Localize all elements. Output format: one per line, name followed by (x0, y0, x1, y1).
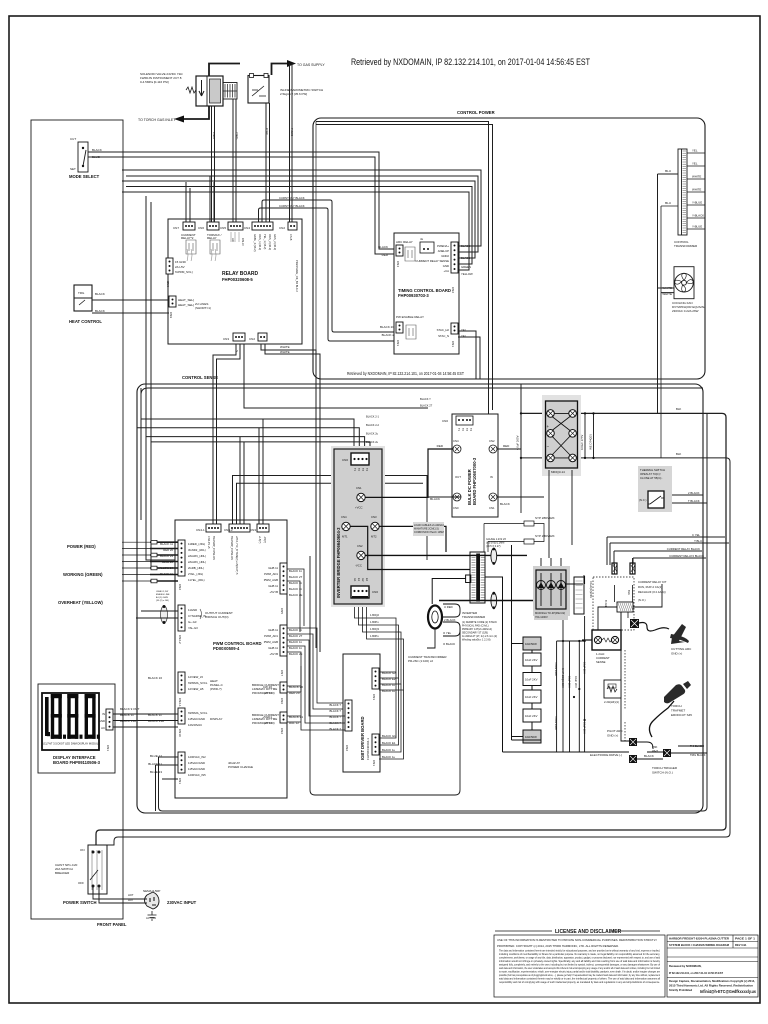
svg-text:CN-D: CN-D (241, 238, 245, 246)
svg-text:BOARD FHP09110506-3: BOARD FHP09110506-3 (53, 760, 101, 765)
svg-text:(PWD-?): (PWD-?) (210, 687, 222, 691)
svg-text:1.8DQ3: 1.8DQ3 (370, 627, 379, 631)
svg-text:CN3: CN3 (372, 694, 376, 700)
svg-text:TRANSFORMER: TRANSFORMER (462, 615, 486, 619)
svg-text:GND (+): GND (+) (671, 652, 682, 656)
svg-text:CN2: CN2 (489, 439, 495, 443)
svg-text:O YEL: O YEL (443, 631, 452, 635)
svg-text:CN0: CN0 (442, 419, 448, 423)
svg-text:YAL-G3: YAL-G3 (188, 626, 198, 630)
svg-text:T BLACK: T BLACK (688, 499, 700, 503)
svg-text:FHP00930703-3: FHP00930703-3 (398, 293, 429, 298)
svg-text:CURRENT RELAY SENSE: CURRENT RELAY SENSE (415, 259, 449, 263)
svg-text:FHP00320608-5: FHP00320608-5 (222, 277, 253, 282)
svg-text:RED 20: RED 20 (163, 548, 173, 552)
svg-text:O BLACK: O BLACK (443, 642, 455, 646)
svg-text:CN1: CN1 (106, 745, 110, 751)
svg-text:possible (but has prerequisite: possible (but has prerequisites as of pl… (499, 973, 660, 977)
svg-text:Winding ratio(No: 1 2.3 8): Winding ratio(No: 1 2.3 8) (462, 639, 491, 642)
svg-text:10uF 2KV: 10uF 2KV (525, 678, 538, 682)
svg-text:4.0Ω3 E0W: 4.0Ω3 E0W (554, 662, 558, 676)
svg-text:230VAC INPUT: 230VAC INPUT (167, 900, 197, 905)
svg-text:TRIG BLACK: TRIG BLACK (690, 753, 706, 757)
svg-text:ON: ON (80, 848, 85, 852)
svg-text:(35 (2) x GB): (35 (2) x GB) (156, 600, 169, 602)
svg-text:SWITCH (N.O.): SWITCH (N.O.) (652, 771, 673, 775)
svg-text:11YEL_(JDL): 11YEL_(JDL) (188, 578, 205, 582)
svg-text:1.8DQ2: 1.8DQ2 (370, 613, 379, 617)
svg-text:WHITE: WHITE (280, 350, 290, 354)
svg-text:2.5kg/cm² [35.6 PSI]: 2.5kg/cm² [35.6 PSI] (280, 92, 307, 96)
svg-text:OUT: OUT (455, 475, 461, 479)
svg-text:BLACK: BLACK (430, 497, 440, 501)
svg-text:BLACK 11: BLACK 11 (120, 713, 134, 717)
svg-text:MT2: MT2 (371, 535, 377, 539)
svg-text:Infini4@h-ETC@Gedfkxxxxly.us: Infini4@h-ETC@Gedfkxxxxly.us (700, 989, 757, 994)
svg-text:TRAFMET: TRAFMET (671, 709, 685, 713)
svg-text:%PRMA_SVCL: %PRMA_SVCL (188, 711, 208, 715)
svg-text:EMERG LINE: EMERG LINE (156, 594, 170, 596)
svg-text:BLU: BLU (665, 169, 671, 173)
svg-text:RUN, RUP-2 CA(1): RUN, RUP-2 CA(1) (638, 585, 662, 589)
svg-text:115VAC/GND: 115VAC/GND (188, 767, 205, 771)
svg-text:WHITE: WHITE (280, 345, 290, 349)
svg-text:CN9: CN9 (169, 312, 173, 318)
svg-text:MODE SELECT: MODE SELECT (69, 174, 100, 179)
svg-text:Retrieved by NXDOMAIN, IP 82.1: Retrieved by NXDOMAIN, IP 82.132.214.101… (351, 57, 590, 67)
svg-text:IN: IN (490, 475, 493, 479)
svg-text:Retrieved by NXDOMAIN, IP 82.1: Retrieved by NXDOMAIN, IP 82.132.214.101… (347, 371, 464, 376)
svg-text:TORCH TRIGGER: TORCH TRIGGER (652, 766, 678, 770)
svg-text:The data and information conta: The data and information contained herei… (499, 949, 660, 953)
svg-text:completeness, usefulness, or u: completeness, usefulness, or usage of an… (499, 956, 661, 960)
svg-text:12VIEW_H5: 12VIEW_H5 (188, 687, 204, 691)
svg-text:ARC RELAY: ARC RELAY (396, 240, 413, 244)
svg-text:Y-BLUE: Y-BLUE (692, 225, 702, 229)
svg-text:BLACK 2: BLACK 2 (382, 333, 395, 337)
svg-text:CN2: CN2 (178, 584, 182, 590)
svg-text:to repair, modification, exper: to repair, modification, experimentation… (499, 970, 660, 974)
svg-text:CN4-2: CN4-2 (224, 528, 233, 532)
svg-text:CN4-P1 +5: CN4-P1 +5 (207, 536, 210, 549)
svg-text:CN1: CN1 (356, 486, 362, 490)
svg-text:RELAY: RELAY (207, 236, 217, 240)
svg-text:2AGRN_(JDL): 2AGRN_(JDL) (188, 554, 206, 558)
svg-text:BLACK: BLACK (500, 502, 510, 506)
svg-text:2YEL_(JDL): 2YEL_(JDL) (188, 572, 203, 576)
svg-text:CYNARNE_IN: CYNARNE_IN (188, 614, 206, 618)
svg-text:BLACK 11: BLACK 11 (289, 646, 302, 650)
svg-text:responsibility and risk of com: responsibility and risk of complying wit… (499, 980, 660, 984)
svg-text:IN: IN (102, 712, 105, 716)
svg-text:10uF 2KV: 10uF 2KV (568, 676, 572, 688)
svg-text:FRONT PANEL: FRONT PANEL (97, 922, 127, 927)
svg-text:−: − (547, 444, 550, 449)
svg-text:PR-26C (1:100) x2: PR-26C (1:100) x2 (408, 659, 433, 663)
svg-text:GHB 11: GHB 11 (268, 628, 278, 632)
svg-text:IGBT DRIVER BOARD: IGBT DRIVER BOARD (360, 716, 365, 760)
svg-text:TRANMP_IN PW-ON: TRANMP_IN PW-ON (212, 536, 215, 560)
svg-text:2.2Ω(HF)(1): 2.2Ω(HF)(1) (604, 700, 619, 704)
svg-text:A1 (2) GWB: A1 (2) GWB (156, 596, 168, 599)
svg-text:PWENA+: PWENA+ (437, 244, 449, 248)
svg-text:CORROSION HeAC 105M: CORROSION HeAC 105M (414, 531, 444, 534)
svg-text:BLACK 11: BLACK 11 (160, 572, 173, 576)
svg-text:BLACK 20: BLACK 20 (380, 325, 394, 329)
svg-text:ANELUP: ANELUP (438, 249, 449, 253)
svg-text:TRG: TRG (78, 291, 85, 295)
svg-text:RED: RED (503, 444, 510, 448)
svg-text:12VIEW_L5: 12VIEW_L5 (188, 675, 203, 679)
svg-text:CN2-2: CN2-2 (178, 635, 182, 644)
svg-text:ELECTRODE DRIVE (-): ELECTRODE DRIVE (-) (590, 753, 622, 757)
svg-text:GRN_2 (36.2): GRN_2 (36.2) (273, 234, 277, 250)
svg-text:CONTROL POWER: CONTROL POWER (457, 110, 495, 115)
svg-text:BLACK: BLACK (95, 292, 105, 296)
svg-text:BLACK 11: BLACK 11 (289, 640, 302, 644)
svg-text:+L5(?): +L5(?) (258, 536, 261, 543)
svg-text:YEL: YEL (692, 162, 698, 166)
svg-text:CN8: CN8 (166, 281, 170, 287)
svg-text:CN2: CN2 (249, 337, 255, 341)
svg-text:1.8DPu: 1.8DPu (370, 634, 379, 638)
svg-text:BLACK: BLACK (378, 245, 388, 249)
svg-text:CN4: CN4 (341, 515, 347, 519)
svg-text:CN0: CN0 (372, 590, 378, 594)
svg-text:CN2: CN2 (279, 226, 285, 230)
svg-text:PROHIBITED. COPYRIGHT (c) 201: PROHIBITED. COPYRIGHT (c) 2014, 2015 THI… (497, 944, 619, 948)
svg-text:GWB3 2,2W: GWB3 2,2W (156, 591, 169, 593)
svg-text:CN5: CN5 (220, 226, 226, 230)
svg-text:YALLOW 24: YALLOW 24 (158, 566, 174, 570)
svg-text:PAGE 1 OF 1: PAGE 1 OF 1 (735, 937, 756, 941)
svg-text:PWM_AD1: PWM_AD1 (264, 572, 278, 576)
svg-text:TRANSFORMER: TRANSFORMER (674, 244, 698, 248)
svg-text:including conditions of mercha: including conditions of merchantability … (499, 952, 660, 956)
svg-text:10uF 2KV: 10uF 2KV (574, 676, 578, 688)
svg-text:B 2UE: B 2UE (604, 600, 608, 608)
svg-text:BLACK 11: BLACK 11 (148, 713, 162, 717)
svg-text:BLACK 2T: BLACK 2T (289, 575, 303, 579)
svg-text:Strictly Prohibited: Strictly Prohibited (669, 988, 693, 992)
svg-text:BLACK 1u: BLACK 1u (382, 748, 396, 752)
svg-text:Y-BLUE: Y-BLUE (692, 201, 702, 205)
svg-text:ERODCUT S45: ERODCUT S45 (671, 713, 692, 717)
svg-text:CN2: CN2 (357, 544, 363, 548)
svg-text:BLACK 7: BLACK 7 (329, 703, 341, 707)
svg-text:said data and information cont: said data and information contained ther… (499, 977, 660, 981)
svg-text:TO TORCH GAS INLET: TO TORCH GAS INLET (138, 118, 176, 122)
svg-text:+5V IB: +5V IB (270, 590, 279, 594)
svg-text:BLUE 13: BLUE 13 (150, 770, 162, 774)
svg-text:BLK: BLK (676, 407, 681, 411)
svg-text:BLGL 20: BLGL 20 (162, 560, 173, 564)
svg-text:Design Capture, Documentation,: Design Capture, Documentation, Modificat… (669, 979, 755, 983)
svg-text:CN3: CN3 (371, 515, 377, 519)
svg-text:YELLOW: YELLOW (461, 272, 473, 276)
svg-text:11GND: 11GND (188, 608, 197, 612)
svg-text:GRBL_4 (36.2): GRBL_4 (36.2) (253, 234, 257, 252)
svg-text:+5GD1: +5GD1 (262, 715, 272, 719)
svg-text:+VCC: +VCC (355, 506, 363, 510)
svg-text:(SHORT=1): (SHORT=1) (195, 306, 211, 310)
svg-text:11RED_(JDL): 11RED_(JDL) (188, 542, 205, 546)
svg-text:BLACK 7: BLACK 7 (329, 709, 341, 713)
svg-text:10Ω/50W: 10Ω/50W (525, 642, 537, 646)
svg-text:CN1: CN1 (489, 506, 495, 510)
svg-text:100uF 277V: 100uF 277V (580, 435, 584, 450)
svg-text:GW 02: GW 02 (263, 691, 273, 695)
svg-text:GHB 11: GHB 11 (268, 646, 278, 650)
svg-text:OFF: OFF (78, 881, 84, 885)
svg-text:PWM_AGB: PWM_AGB (264, 578, 278, 582)
svg-text:BOARD FHP10607000-3: BOARD FHP10607000-3 (472, 457, 477, 505)
svg-text:126/20VAC: 126/20VAC (188, 723, 202, 727)
svg-text:(N.C.): (N.C.) (639, 498, 647, 502)
svg-text:U RED: U RED (444, 605, 453, 609)
svg-text:SYP 28DV92K: SYP 28DV92K (535, 534, 555, 538)
svg-text:BLK: BLK (676, 452, 681, 456)
svg-text:70A 1200V: 70A 1200V (535, 615, 548, 619)
svg-text:MUR/3GA TO-3P(D92-02): MUR/3GA TO-3P(D92-02) (535, 611, 565, 615)
svg-text:CN6: CN6 (198, 226, 204, 230)
svg-text:CLOSE AT 55(C)↓: CLOSE AT 55(C)↓ (640, 476, 663, 480)
svg-text:MT1: MT1 (342, 535, 348, 539)
svg-text:INE D74Q01: INE D74Q01 (589, 434, 593, 450)
svg-text:POWER (RED): POWER (RED) (67, 544, 96, 549)
svg-text:SENSE: SENSE (596, 660, 606, 664)
svg-text:BLACK 11: BLACK 11 (289, 569, 302, 573)
svg-text:CN-B: CN-B (289, 234, 293, 241)
svg-text:CURRENT RELAY BLACK: CURRENT RELAY BLACK (667, 547, 700, 551)
svg-text:CN0: CN0 (453, 506, 459, 510)
svg-text:CN1: CN1 (451, 341, 455, 347)
svg-text:BLACK 2T: BLACK 2T (420, 404, 433, 408)
svg-text:RELAY*2: RELAY*2 (181, 236, 194, 240)
svg-text:BLACK: BLACK (644, 754, 654, 758)
svg-text:2AGRN_(JDL): 2AGRN_(JDL) (188, 560, 206, 564)
svg-text:BLACK 2E: BLACK 2E (289, 593, 303, 597)
svg-text:HEAT CONTROL: HEAT CONTROL (69, 319, 102, 324)
svg-text:BLACK: BLACK (92, 148, 102, 152)
svg-text:2A L5V: 2A L5V (175, 265, 185, 269)
svg-text:BLK: BLK (627, 590, 631, 595)
svg-text:HOT: HOT (128, 898, 134, 902)
svg-text:STAC_H2: STAC_H2 (437, 328, 450, 332)
svg-text:CN3: CN3 (223, 337, 229, 341)
svg-text:(10.5 X 0.27): (10.5 X 0.27) (486, 545, 501, 548)
svg-text:BLACK 11: BLACK 11 (148, 762, 162, 766)
svg-text:GHB 11: GHB 11 (268, 566, 278, 570)
svg-text:BLU: BLU (665, 201, 671, 205)
svg-text:BLACK 11: BLACK 11 (160, 542, 173, 546)
svg-text:WHITE: WHITE (692, 188, 701, 192)
svg-text:ORN_1 (36.2): ORN_1 (36.2) (258, 234, 262, 250)
svg-text:CN0: CN0 (342, 458, 348, 462)
svg-text:10uF 2KV: 10uF 2KV (525, 714, 538, 718)
svg-text:HEAT_SEL]: HEAT_SEL] (178, 303, 194, 307)
svg-text:2 BLACK: 2 BLACK (444, 618, 456, 622)
svg-text:15 GND: 15 GND (175, 260, 187, 264)
svg-text:BLACK 13B: BLACK 13B (148, 719, 164, 723)
svg-text:2GRB_(JDL): 2GRB_(JDL) (188, 566, 204, 570)
svg-text:HOT: HOT (128, 893, 134, 897)
svg-text:BLACK: BLACK (95, 309, 105, 313)
svg-text:CUT: CUT (70, 137, 76, 141)
svg-text:WHITE: WHITE (692, 175, 701, 179)
svg-text:POWER SWITCH: POWER SWITCH (63, 900, 97, 905)
svg-text:-C5(?): -C5(?) (263, 536, 266, 543)
svg-text:INVERTER BRIDGE FHP06640604-3: INVERTER BRIDGE FHP06640604-3 (336, 527, 341, 598)
svg-text:S.YP 2SQ3 Θ2K: S.YP 2SQ3 Θ2K (561, 668, 565, 688)
svg-text:PD00X0509-4: PD00X0509-4 (213, 646, 240, 651)
svg-text:CUTTING ARC: CUTTING ARC (671, 647, 692, 651)
svg-text:ORN_2 (36.2): ORN_2 (36.2) (268, 234, 272, 250)
svg-text:4.0Ω3 E0W: 4.0Ω3 E0W (554, 716, 558, 730)
svg-text:POWER CHANGE: POWER CHANGE (228, 765, 253, 769)
svg-text:CN3: CN3 (250, 528, 256, 532)
svg-text:WIDSCH OUT(D): WIDSCH OUT(D) (205, 615, 229, 619)
svg-text:2015 Third Harmonic Ltd. All: 2015 Third Harmonic Ltd. All Rights Rese… (669, 984, 753, 988)
svg-text:BLACK 1u: BLACK 1u (382, 755, 396, 759)
svg-text:GND: GND (443, 264, 449, 268)
svg-text:USE OF THIS INFORMATION IS RES: USE OF THIS INFORMATION IS RESTRICTED TO… (497, 938, 657, 942)
svg-text:BLACK 2u: BLACK 2u (366, 432, 379, 436)
svg-text:10uF 2KV: 10uF 2KV (583, 722, 587, 734)
svg-text:SYSTEM BLOCK / CHASSIS WIRING: SYSTEM BLOCK / CHASSIS WIRING DIAGRAM (669, 943, 730, 947)
svg-text:1200VAC_IN5: 1200VAC_IN5 (188, 773, 206, 777)
svg-text:CURRENT RELAY KIT: CURRENT RELAY KIT (638, 580, 667, 584)
svg-text:BLACK 2-2: BLACK 2-2 (366, 423, 380, 427)
svg-text:PRESSURE_OK_B2 BLK 2: PRESSURE_OK_B2 BLK 2 (295, 260, 299, 292)
svg-text:assigned fully, completely, an: assigned fully, completely, and entirely… (499, 963, 660, 967)
svg-text:IP 82.132.214.101, on 2017-01-: IP 82.132.214.101, on 2017-01-04 14:56:4… (669, 971, 723, 975)
svg-text:4x: 4x (420, 237, 424, 241)
svg-text:CN7: CN7 (280, 670, 284, 676)
svg-text:BLACK 2E: BLACK 2E (289, 652, 303, 656)
svg-text:GND: GND (99, 719, 105, 723)
svg-text:PWM_AD1: PWM_AD1 (264, 634, 278, 638)
svg-text:BLUE 12: BLUE 12 (150, 754, 162, 758)
svg-text:WORKING (GREEN): WORKING (GREEN) (63, 572, 103, 577)
svg-text:T BLU: T BLU (694, 539, 702, 543)
svg-text:MIDQ3-14: MIDQ3-14 (551, 470, 565, 474)
svg-text:RED: RED (437, 444, 444, 448)
svg-text:BLACK 13A: BLACK 13A (120, 719, 136, 723)
svg-text:10uF 2KV: 10uF 2KV (583, 662, 587, 674)
svg-text:CN10: CN10 (178, 729, 182, 737)
svg-text:PNK: PNK (652, 745, 658, 749)
svg-text:WHT: WHT (652, 749, 658, 753)
svg-text:10uF 2KV: 10uF 2KV (525, 695, 538, 699)
svg-text:0-4.5MPa [0-116 PSI]: 0-4.5MPa [0-116 PSI] (140, 80, 169, 84)
svg-text:BLACK 2-1: BLACK 2-1 (366, 415, 380, 419)
svg-text:BLACK E1: BLACK E1 (382, 741, 396, 745)
svg-text:BLACK 24: BLACK 24 (160, 554, 174, 558)
svg-text:GND2: GND2 (441, 254, 449, 258)
svg-text:CN1: CN1 (372, 760, 376, 766)
svg-text:%PRM_SVL]: %PRM_SVL] (175, 270, 193, 274)
svg-text:FHP06640604-1: FHP06640604-1 (366, 738, 370, 760)
svg-text:SET: SET (70, 167, 76, 171)
svg-text:3GND2_(JDL): 3GND2_(JDL) (188, 548, 206, 552)
svg-text:PW ENABLE RELAY: PW ENABLE RELAY (396, 315, 424, 319)
svg-text:115VAC/GND: 115VAC/GND (188, 761, 205, 765)
svg-text:10uF 2KV: 10uF 2KV (525, 658, 538, 662)
svg-text:STAC_N: STAC_N (438, 334, 449, 338)
svg-text:CN2: CN2 (345, 745, 349, 751)
svg-text:THI BLACK: THI BLACK (690, 744, 704, 748)
svg-text:CN2-1: CN2-1 (178, 698, 182, 707)
svg-text:GHB 11: GHB 11 (268, 584, 278, 588)
svg-text:CW 26: CW 26 (263, 685, 273, 689)
svg-text:HARBOR FREIGHT 62204 PLASMA CU: HARBOR FREIGHT 62204 PLASMA CUTTER (669, 937, 729, 941)
svg-text:BLACK 9 OUT: BLACK 9 OUT (120, 707, 140, 711)
svg-text:(N.O.): (N.O.) (638, 598, 646, 602)
svg-text:10Ω/50W: 10Ω/50W (525, 735, 537, 739)
svg-text:GND (+): GND (+) (607, 734, 618, 738)
svg-text:PWM_AGB: PWM_AGB (264, 640, 278, 644)
svg-text:0.1uF(X2)/2KV: 0.1uF(X2)/2KV (589, 581, 593, 598)
svg-text:CN7: CN7 (173, 226, 179, 230)
svg-text:CN2: CN2 (280, 728, 284, 734)
svg-text:GW 02: GW 02 (263, 721, 273, 725)
svg-text:BLACK Y: BLACK Y (420, 397, 431, 401)
svg-text:1200VAC_IN2: 1200VAC_IN2 (188, 755, 206, 759)
svg-text:HEAT_SEL]: HEAT_SEL] (178, 298, 194, 302)
svg-text:+CA: +CA (443, 269, 449, 273)
svg-text:BREAKER: BREAKER (55, 871, 70, 875)
svg-text:information would not infringe: information would not infringe on privat… (499, 959, 661, 963)
svg-text:YEL_1 (36.2): YEL_1 (36.2) (263, 234, 267, 249)
svg-text:BLACK 2T: BLACK 2T (289, 634, 303, 638)
svg-text:AC: AC (101, 726, 105, 730)
svg-text:DISPLAY: DISPLAY (210, 717, 222, 721)
svg-text:CN6: CN6 (280, 698, 284, 704)
svg-text:G+-G3: G+-G3 (188, 620, 197, 624)
svg-text:Y-BLACK: Y-BLACK (692, 214, 704, 218)
svg-text:CN4-1: CN4-1 (196, 528, 205, 532)
svg-text:LICENSE AND DISCLAIMER: LICENSE AND DISCLAIMER (555, 929, 622, 935)
svg-text:NEMA 6-50P: NEMA 6-50P (143, 889, 160, 893)
svg-text:C YEL: C YEL (692, 533, 700, 537)
svg-text:2 BLACK: 2 BLACK (688, 491, 700, 495)
svg-text:RECHAUF (# 2.4A(1)): RECHAUF (# 2.4A(1)) (638, 590, 666, 594)
svg-text:230VAC 0.22A 26W: 230VAC 0.22A 26W (672, 309, 699, 313)
svg-text:+5V IB: +5V IB (270, 652, 279, 656)
svg-text:%PRMA_SVCL: %PRMA_SVCL (188, 681, 208, 685)
svg-text:CN3: CN3 (396, 340, 400, 346)
svg-text:YEL: YEL (692, 149, 698, 153)
svg-text:4.0uF 265V: 4.0uF 265V (516, 435, 520, 450)
svg-text:BLACK 16: BLACK 16 (148, 676, 162, 680)
svg-text:CN4: CN4 (244, 226, 250, 230)
svg-text:said data and information, the: said data and information, the user unde… (499, 966, 660, 970)
svg-text:115VAC/GND: 115VAC/GND (188, 717, 205, 721)
svg-text:AC GND: AC GND (146, 916, 156, 920)
svg-text:Reviewed by NXDOMAIN,: Reviewed by NXDOMAIN, (669, 964, 702, 968)
svg-text:TRANMP_IN PW-ON: TRANMP_IN PW-ON (230, 536, 233, 560)
svg-text:+: + (547, 424, 550, 429)
svg-text:+PTA, IYC_B TIME(2) +L5(OUT) 5: +PTA, IYC_B TIME(2) +L5(OUT) 5 (235, 536, 238, 575)
svg-text:1.8DPu: 1.8DPu (370, 620, 379, 624)
svg-text:TORCH: TORCH (671, 704, 682, 708)
svg-text:CN2: CN2 (451, 287, 455, 293)
svg-text:(CL7%T 3.5 DIGIT LED DNM DISPL: (CL7%T 3.5 DIGIT LED DNM DISPLAY MODULE (43, 742, 100, 746)
svg-text:CN5: CN5 (280, 608, 284, 614)
svg-text:TO GAS SUPPLY: TO GAS SUPPLY (297, 63, 325, 67)
svg-text:-VCC: -VCC (355, 564, 362, 568)
